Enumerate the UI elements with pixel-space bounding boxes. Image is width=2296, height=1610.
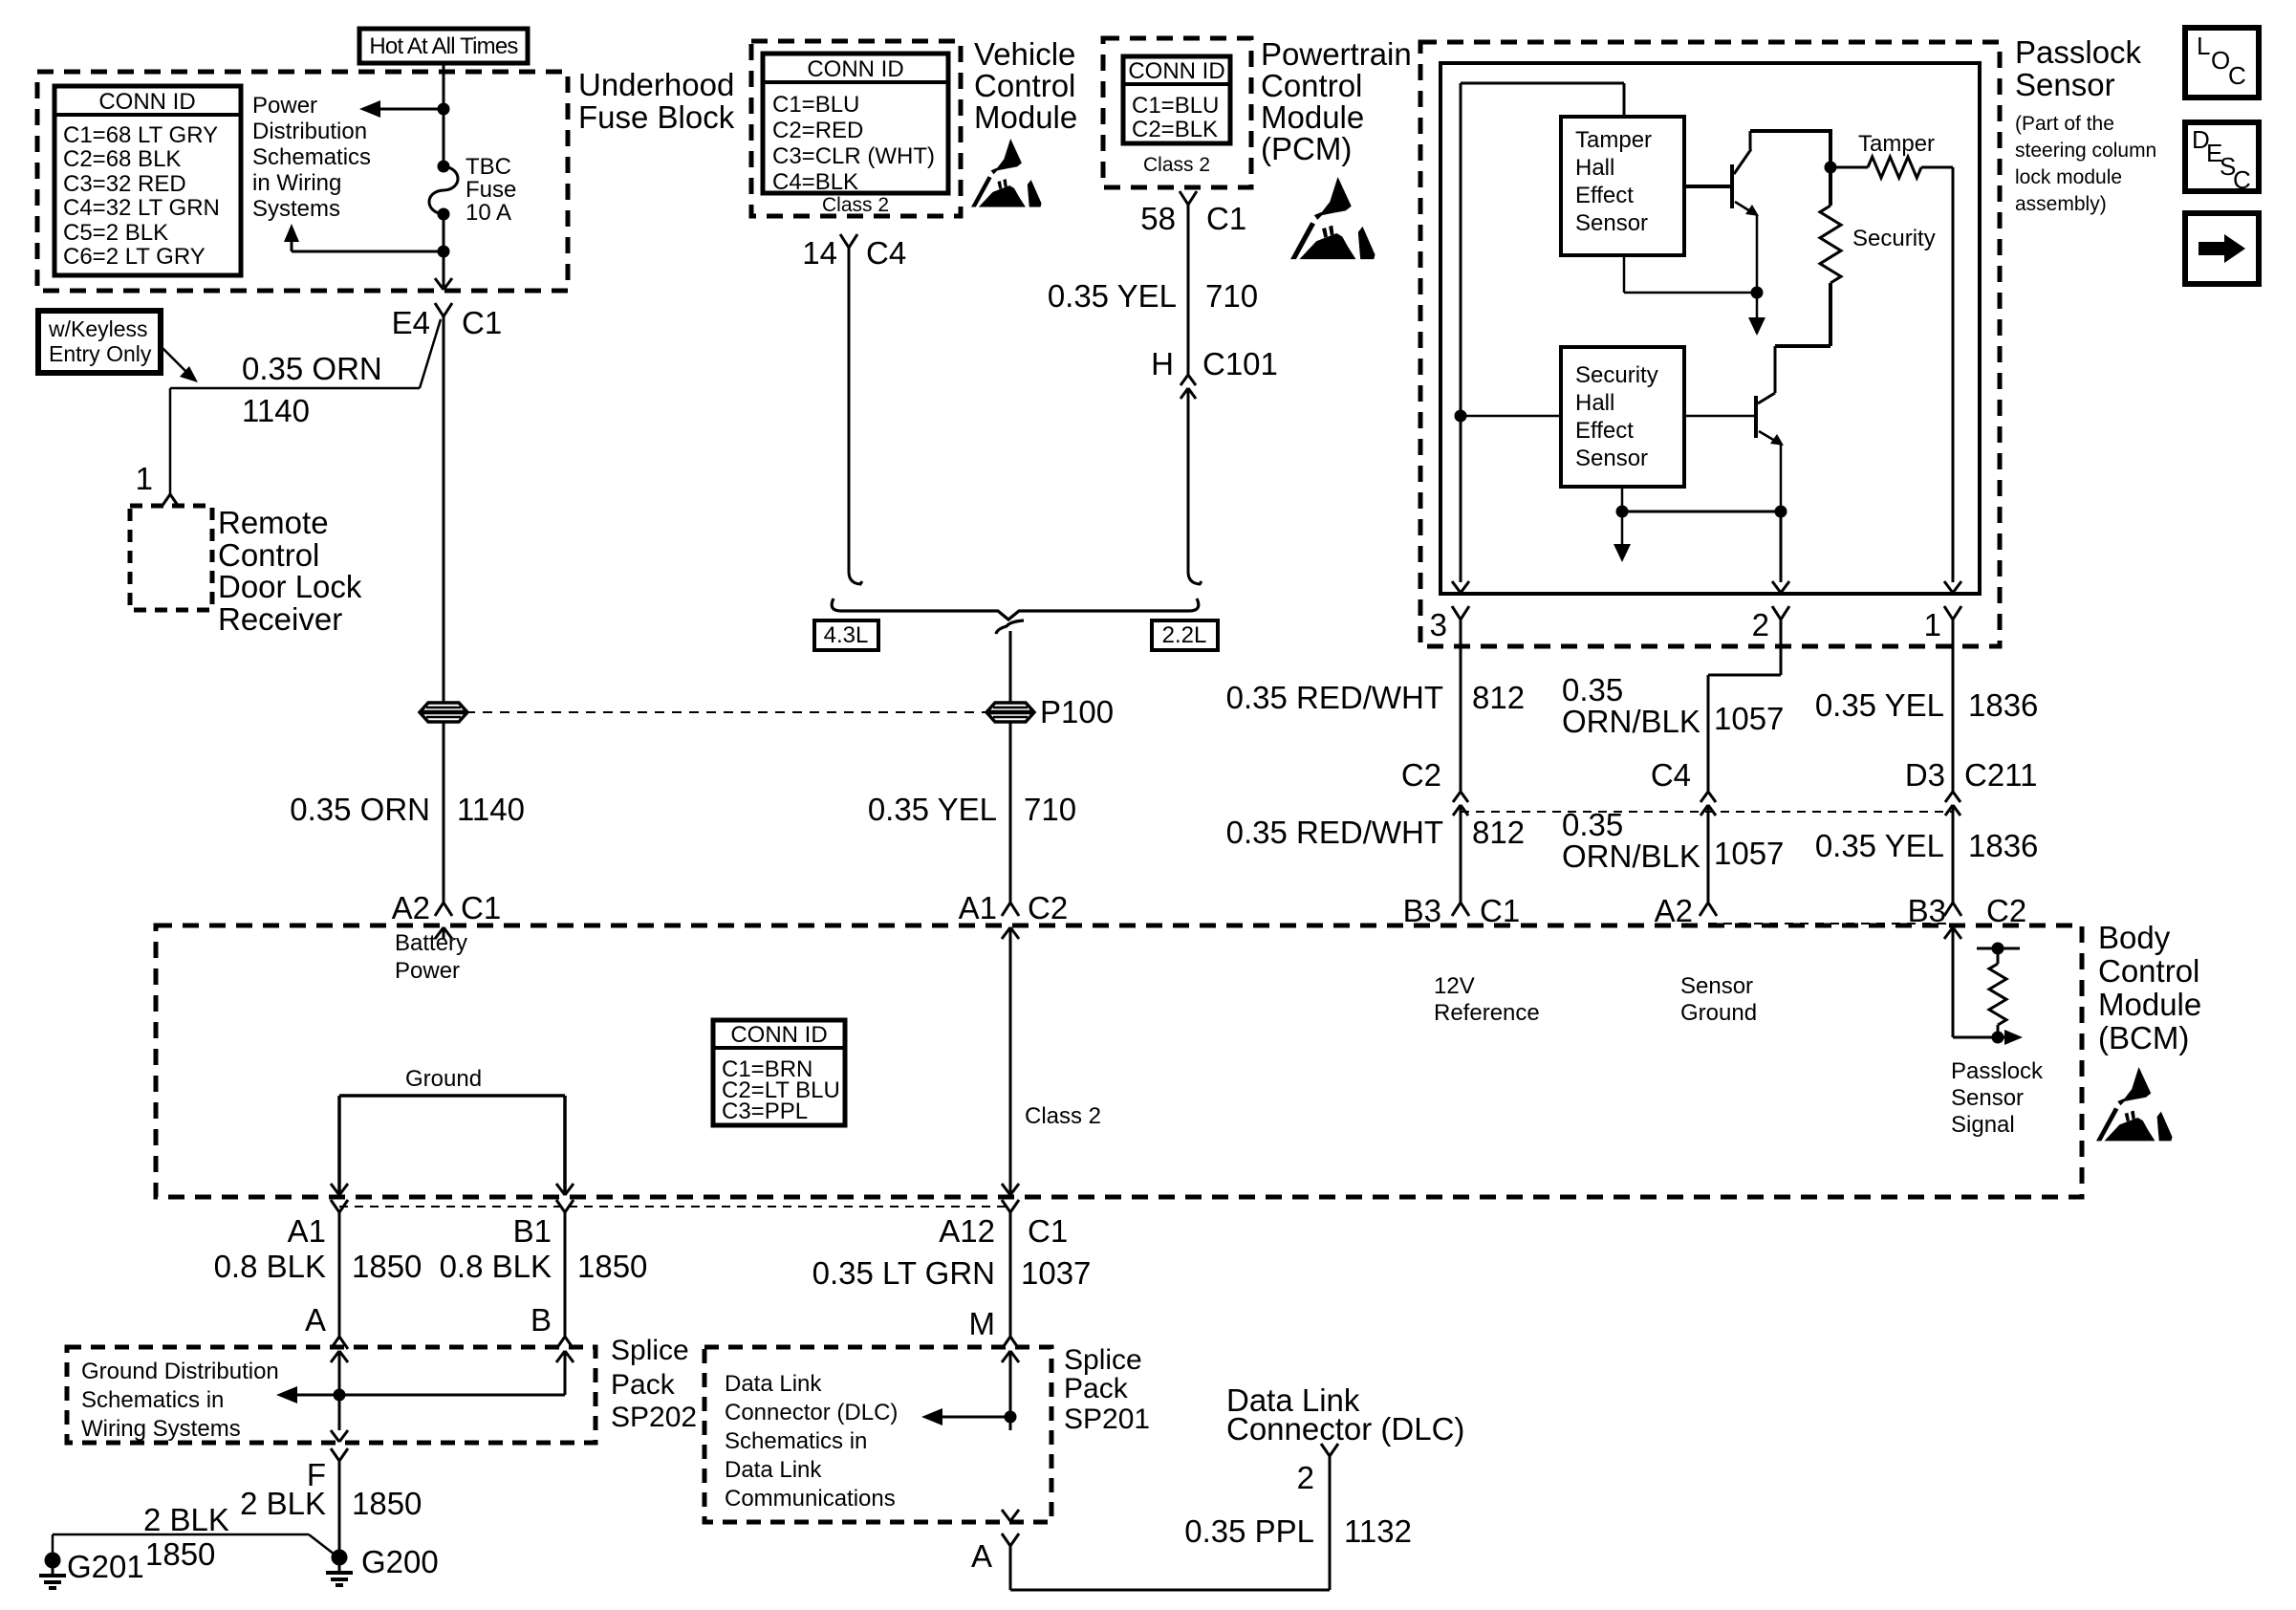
wire security resistor to Q2 collector [1829, 283, 1832, 346]
svg-text:Fuse: Fuse [466, 177, 516, 203]
svg-text:Schematics: Schematics [252, 144, 371, 170]
svg-text:Effect: Effect [1575, 183, 1634, 208]
svg-text:14: 14 [802, 235, 837, 271]
connector pin 1 (passlock) [1944, 606, 1953, 620]
svg-text:0.35: 0.35 [1562, 807, 1623, 842]
svg-text:Pack: Pack [611, 1369, 676, 1401]
svg-text:Class 2: Class 2 [822, 194, 889, 216]
svg-text:assembly): assembly) [2015, 193, 2107, 215]
svg-text:1850: 1850 [577, 1249, 647, 1284]
module Passlock Sensor (dashed box) [1420, 42, 2000, 646]
svg-text:Control: Control [218, 537, 319, 573]
svg-text:Powertrain: Powertrain [1261, 36, 1412, 72]
connector B3 C1 12V reference (BCM) [1452, 903, 1461, 916]
svg-text:G200: G200 [361, 1544, 439, 1579]
svg-text:Distribution: Distribution [252, 119, 367, 144]
module Underhood Fuse Block (dashed box) [37, 72, 568, 291]
svg-text:Connector (DLC): Connector (DLC) [725, 1400, 898, 1425]
connector A (SP201 output) [1002, 1534, 1010, 1546]
svg-text:Data Link: Data Link [725, 1457, 822, 1483]
block Security Hall Effect Sensor [1561, 347, 1684, 487]
svg-text:C5=2 BLK: C5=2 BLK [63, 220, 168, 246]
svg-text:G201: G201 [67, 1549, 144, 1584]
transistor Q2 security output (NPN) [1684, 415, 1756, 418]
svg-text:C4: C4 [1651, 757, 1691, 793]
svg-text:Power: Power [252, 93, 317, 119]
wire arrow to power distribution schematics [379, 108, 444, 111]
svg-text:Module: Module [974, 99, 1077, 135]
svg-text:A1: A1 [959, 890, 997, 925]
wire splice SP202 internal [339, 1394, 565, 1397]
wire 1057 pin2 jog to C4 [1780, 646, 1783, 675]
svg-text:C6=2 LT GRY: C6=2 LT GRY [63, 244, 206, 270]
svg-text:B3: B3 [1403, 893, 1441, 928]
svg-text:Passlock: Passlock [1951, 1058, 2044, 1084]
svg-text:C2: C2 [1401, 757, 1441, 793]
svg-text:2 BLK: 2 BLK [240, 1486, 326, 1521]
svg-text:C2=RED: C2=RED [772, 118, 863, 143]
svg-text:C3=CLR (WHT): C3=CLR (WHT) [772, 143, 935, 169]
splice pack SP202 (dashed box) [67, 1347, 596, 1443]
svg-text:A2: A2 [392, 890, 430, 925]
svg-text:2: 2 [1752, 607, 1769, 642]
svg-text:0.35 YEL: 0.35 YEL [868, 792, 997, 827]
svg-text:1836: 1836 [1968, 687, 2038, 723]
svg-text:C1=BLU: C1=BLU [772, 92, 859, 118]
block Tamper Hall Effect Sensor [1623, 83, 1626, 117]
wire tamper sensor bottom to emitter junction [1623, 255, 1626, 293]
svg-text:(PCM): (PCM) [1261, 131, 1352, 166]
svg-text:C2=68 BLK: C2=68 BLK [63, 146, 181, 172]
transistor Q1 tamper output (NPN) [1684, 185, 1732, 188]
wire branch to power distribution (up arrow) [292, 250, 444, 253]
arrow from keyless note to wire [161, 346, 187, 373]
svg-text:Communications: Communications [725, 1486, 896, 1512]
svg-text:SP202: SP202 [611, 1402, 697, 1433]
svg-text:Module: Module [2098, 987, 2201, 1022]
junction dot fuse output branch [438, 246, 450, 258]
svg-text:0.35 LT GRN: 0.35 LT GRN [812, 1255, 995, 1291]
svg-text:P100: P100 [1040, 694, 1114, 729]
svg-text:0.35 YEL: 0.35 YEL [1815, 828, 1944, 863]
svg-text:Wiring Systems: Wiring Systems [81, 1416, 241, 1442]
svg-text:A: A [305, 1302, 326, 1338]
svg-text:ORN/BLK: ORN/BLK [1562, 838, 1700, 874]
svg-text:CONN ID: CONN ID [98, 89, 195, 115]
junction dot SP202 [334, 1389, 346, 1402]
wire left supply rail (pin 3 internal) [1460, 83, 1462, 582]
wire hook VCM side (4.3L option) [849, 572, 862, 584]
svg-text:Signal: Signal [1951, 1112, 2015, 1138]
junction dot passlock signal node [1992, 1032, 2004, 1044]
wire Class 2 inside BCM [1009, 927, 1012, 1193]
svg-text:Sensor: Sensor [1575, 210, 1648, 236]
svg-text:Pack: Pack [1064, 1373, 1129, 1404]
connector ID table C1-C6 (fuse block) [54, 86, 241, 275]
arrow ground wire A1 exits BCM [331, 1184, 339, 1195]
wire fuse output [443, 214, 445, 287]
svg-text:B3: B3 [1908, 893, 1946, 928]
svg-text:1: 1 [136, 461, 153, 496]
svg-text:Door Lock: Door Lock [218, 569, 362, 604]
junction dot SP201 [1005, 1411, 1017, 1424]
connector C4 (in-line C211 row) [1700, 792, 1708, 802]
wire 1850 to G201 [53, 1534, 309, 1536]
module Body Control Module BCM (dashed box) [156, 925, 2082, 1197]
junction dot Q2 emitter [1775, 506, 1787, 518]
svg-text:B1: B1 [513, 1213, 552, 1249]
module Vehicle Control Module (dashed box) [751, 41, 961, 216]
svg-text:58: 58 [1140, 201, 1176, 236]
resistor BCM passlock pull-up [1977, 947, 2020, 950]
junction dot tamper node [1825, 162, 1837, 174]
svg-text:C3=32 RED: C3=32 RED [63, 171, 186, 197]
svg-text:C1: C1 [1480, 893, 1520, 928]
svg-text:M: M [969, 1306, 996, 1341]
svg-text:0.35 PPL: 0.35 PPL [1184, 1513, 1314, 1549]
svg-text:1850: 1850 [145, 1536, 215, 1572]
label 2.2L (boxed) [1152, 620, 1218, 650]
label 4.3L (boxed) [814, 620, 878, 650]
svg-text:w/Keyless: w/Keyless [48, 316, 148, 341]
svg-text:Schematics in: Schematics in [725, 1428, 867, 1454]
svg-text:Hall: Hall [1575, 155, 1614, 181]
svg-text:C1: C1 [461, 890, 501, 925]
fuse TBC Fuse 10 A [438, 161, 450, 173]
svg-text:Tamper: Tamper [1858, 131, 1935, 157]
dashed tie line A1-B1-A12 connector row [339, 1206, 1010, 1207]
wire hook PCM side (2.2L option) [1188, 572, 1202, 584]
connector B1 (BCM ground) [556, 1200, 565, 1212]
connector pin 3 (passlock) [1452, 606, 1461, 620]
wire exits fuse block (open arrow down) [435, 278, 444, 290]
svg-text:Underhood: Underhood [578, 67, 734, 102]
svg-text:1850: 1850 [352, 1249, 422, 1284]
svg-text:Connector (DLC): Connector (DLC) [1226, 1411, 1464, 1447]
svg-text:2 BLK: 2 BLK [143, 1502, 229, 1537]
svg-text:Control: Control [974, 68, 1075, 103]
connector pin 14 C4 (VCM) [840, 234, 849, 248]
svg-text:Control: Control [1261, 68, 1362, 103]
svg-text:Hot At All Times: Hot At All Times [369, 33, 518, 59]
svg-text:2: 2 [1297, 1460, 1314, 1495]
wire 1140 P100 to BCM A2 [443, 723, 445, 903]
svg-text:1: 1 [1924, 607, 1941, 642]
svg-text:Remote: Remote [218, 505, 329, 540]
svg-text:Splice: Splice [1064, 1344, 1142, 1376]
wire 812 pin3 to C2 [1460, 646, 1462, 792]
ESD symbol (PCM) [1290, 177, 1375, 259]
svg-text:in Wiring: in Wiring [252, 170, 341, 196]
wire 710 P100 to BCM A1 [1009, 723, 1012, 903]
svg-text:1037: 1037 [1021, 1255, 1091, 1291]
wire battery feed into fuse (vertical) [443, 63, 445, 166]
svg-text:lock module: lock module [2015, 166, 2122, 188]
svg-text:H: H [1151, 346, 1174, 381]
svg-text:0.35: 0.35 [1562, 672, 1623, 707]
ESD symbol (VCM) [971, 139, 1042, 207]
svg-text:4.3L: 4.3L [824, 622, 869, 648]
wire left rail to security sensor [1455, 410, 1467, 423]
svg-text:1140: 1140 [457, 792, 525, 827]
connector A12 C1 (BCM class2 output) [1002, 1200, 1010, 1212]
wire 1836 pin1 to D3 [1952, 646, 1955, 792]
dashed tie line C211 connector row [1461, 811, 1953, 813]
svg-text:0.35 YEL: 0.35 YEL [1815, 687, 1944, 723]
svg-text:0.35 RED/WHT: 0.35 RED/WHT [1226, 680, 1443, 715]
svg-text:CONN ID: CONN ID [730, 1022, 827, 1048]
wire 1132 SP201-A to DLC pin 2 [1010, 1589, 1330, 1592]
wire pin2 internal down [1780, 511, 1783, 582]
wire passlock sensor signal inside BCM [1952, 927, 1955, 1037]
connector F (SP202 output) [331, 1448, 339, 1461]
svg-text:C3=PPL: C3=PPL [722, 1099, 808, 1124]
connector A2 sensor ground (BCM) [1700, 903, 1708, 916]
svg-text:D3: D3 [1905, 757, 1945, 793]
wire 1057 C4 to BCM A2 [1707, 805, 1710, 903]
connector B3 C2 passlock sensor signal (BCM) [1944, 903, 1953, 916]
svg-text:Class 2: Class 2 [1143, 154, 1210, 176]
wire 710 from PCM pin 58 [1187, 222, 1190, 375]
wire security sensor bottom to emitter row [1621, 487, 1624, 511]
connector ID table VCM [763, 54, 948, 193]
svg-text:L: L [2197, 32, 2210, 60]
svg-text:Hall: Hall [1575, 390, 1614, 416]
wire pin1 right rail [1952, 167, 1955, 582]
svg-text:Tamper: Tamper [1575, 127, 1652, 153]
arrow pin1 wire exits housing [1944, 581, 1953, 593]
ground G201 [45, 1553, 61, 1569]
svg-text:Passlock: Passlock [2015, 34, 2142, 70]
arrow internal common (down) below security sensor [1621, 511, 1624, 547]
svg-text:C2: C2 [1028, 890, 1068, 925]
svg-text:Ground Distribution: Ground Distribution [81, 1359, 279, 1384]
junction dot at fuse feed [438, 103, 450, 116]
svg-text:B: B [531, 1302, 552, 1338]
svg-text:Receiver: Receiver [218, 601, 342, 637]
legend next-page arrow box [2185, 213, 2259, 284]
arrow ground wire B1 exits BCM [556, 1184, 565, 1195]
svg-text:A: A [971, 1538, 992, 1574]
ESD symbol (BCM) [2096, 1067, 2173, 1141]
arrow class2 wire exits BCM at A12 [1002, 1184, 1010, 1195]
svg-text:C: C [2233, 165, 2251, 194]
svg-text:1140: 1140 [242, 393, 310, 428]
svg-text:1850: 1850 [352, 1486, 422, 1521]
svg-text:A1: A1 [288, 1213, 326, 1249]
svg-text:Systems: Systems [252, 196, 340, 222]
svg-text:Body: Body [2098, 920, 2171, 955]
svg-text:steering column: steering column [2015, 140, 2156, 162]
svg-text:Sensor: Sensor [1575, 446, 1648, 471]
svg-text:(Part of the: (Part of the [2015, 113, 2114, 135]
svg-text:1132: 1132 [1344, 1513, 1412, 1549]
svg-text:0.35 ORN: 0.35 ORN [290, 792, 430, 827]
svg-text:Splice: Splice [611, 1335, 689, 1366]
junction dot Q1 emitter [1751, 287, 1764, 299]
module Powertrain Control Module PCM (dashed box) [1103, 38, 1251, 187]
resistor Security [1829, 167, 1832, 206]
svg-text:Battery: Battery [395, 930, 467, 956]
wire Q1 collector to tamper resistor node [1750, 129, 1832, 133]
svg-text:Control: Control [2098, 953, 2199, 989]
connector pin 2 (DLC) [1321, 1444, 1330, 1456]
dashed tie line A2-B3 connector row [1708, 923, 1953, 925]
svg-text:812: 812 [1472, 815, 1525, 850]
arrow SP202 to ground distribution [295, 1394, 339, 1397]
svg-text:C211: C211 [1964, 757, 2037, 793]
connector D3 C211 (in-line) [1945, 792, 1953, 802]
arrow SP202 wire exits down [331, 1430, 339, 1442]
svg-text:CONN ID: CONN ID [1128, 58, 1224, 84]
svg-text:Sensor: Sensor [1951, 1085, 2024, 1111]
grommet P100 (right, wire 710) [986, 703, 1034, 722]
svg-text:0.35 RED/WHT: 0.35 RED/WHT [1226, 815, 1443, 850]
arrow pin2 wire exits housing [1772, 581, 1781, 593]
connector H C101 (in-line) [1180, 375, 1188, 385]
svg-text:710: 710 [1205, 278, 1258, 314]
svg-text:1057: 1057 [1714, 836, 1784, 871]
passlock sensor inner housing (solid box) [1440, 63, 1980, 594]
wire ground loop inside BCM [339, 1094, 565, 1098]
svg-text:1836: 1836 [1968, 828, 2038, 863]
svg-text:Power: Power [395, 958, 460, 984]
wire 812 C2 to BCM B3 [1460, 805, 1462, 903]
svg-text:Fuse Block: Fuse Block [578, 99, 735, 135]
svg-text:C1: C1 [462, 305, 502, 340]
connector pin 58 C1 (PCM) [1180, 191, 1188, 205]
svg-text:C2=BLK: C2=BLK [1132, 117, 1218, 142]
svg-text:C4: C4 [866, 235, 906, 271]
connector C2 (in-line C211 row) [1453, 792, 1461, 802]
svg-text:Schematics in: Schematics in [81, 1387, 224, 1413]
svg-text:C1=BLU: C1=BLU [1132, 93, 1219, 119]
svg-text:Effect: Effect [1575, 418, 1634, 444]
svg-text:0.35 ORN: 0.35 ORN [242, 351, 382, 386]
svg-text:812: 812 [1472, 680, 1525, 715]
svg-text:C: C [2228, 61, 2246, 90]
svg-text:C4=32 LT GRN: C4=32 LT GRN [63, 195, 220, 221]
svg-text:Reference: Reference [1434, 1000, 1540, 1026]
connector A1 (BCM ground) [331, 1200, 339, 1212]
legend DESC box [2185, 122, 2259, 191]
arrow pin3 wire exits housing [1452, 581, 1461, 593]
connector E4 C1 (fuse block output) [435, 303, 444, 316]
connector pin 2 (passlock) [1772, 606, 1781, 620]
connector ID table PCM [1123, 56, 1230, 143]
junction dot security sensor ground [1616, 506, 1629, 518]
svg-text:0.8 BLK: 0.8 BLK [214, 1249, 326, 1284]
svg-text:0.8 BLK: 0.8 BLK [440, 1249, 552, 1284]
svg-text:1057: 1057 [1714, 701, 1784, 736]
wire Q2 emitter down [1780, 445, 1783, 511]
arrow SP201 wire exits down [1002, 1510, 1010, 1521]
wire Class 2 serial data from VCM [848, 264, 851, 572]
svg-text:2.2L: 2.2L [1162, 622, 1207, 648]
svg-text:Ground: Ground [405, 1066, 482, 1092]
wire 710 from brace to P100 [1009, 631, 1012, 702]
connector A2 C1 battery power input (BCM) [435, 903, 444, 916]
svg-text:Security: Security [1852, 226, 1936, 251]
grommet P100 (left, wire 1140) [420, 703, 467, 722]
svg-text:Entry Only: Entry Only [49, 341, 152, 366]
svg-text:Vehicle: Vehicle [974, 36, 1075, 72]
wire 710 from C101 to engine option brace [1187, 388, 1190, 572]
svg-text:CONN ID: CONN ID [807, 56, 903, 82]
svg-text:10 A: 10 A [466, 200, 511, 226]
svg-text:C4=BLK: C4=BLK [772, 169, 858, 195]
svg-text:Ground: Ground [1680, 1000, 1757, 1026]
svg-text:(BCM): (BCM) [2098, 1020, 2189, 1055]
svg-text:A2: A2 [1655, 893, 1693, 928]
module Remote Control Door Lock Receiver (dashed box) [130, 506, 212, 610]
wire 1140 branch to keyless receiver [420, 319, 441, 388]
dashed tie line between P100 grommets [466, 711, 987, 713]
wire Q1 emitter down [1756, 215, 1759, 293]
svg-text:Security: Security [1575, 362, 1658, 388]
svg-text:A12: A12 [939, 1213, 995, 1249]
label Hot At All Times (boxed) [359, 29, 528, 63]
svg-text:Class 2: Class 2 [1025, 1103, 1101, 1129]
svg-text:C101: C101 [1202, 346, 1278, 381]
legend LOC box [2185, 28, 2259, 98]
svg-text:Data Link: Data Link [725, 1371, 822, 1397]
label w/Keyless Entry Only (boxed) [38, 311, 161, 373]
svg-text:Sensor: Sensor [1680, 973, 1753, 999]
splice pack SP201 (dashed box) [704, 1347, 1051, 1522]
svg-text:0.35 YEL: 0.35 YEL [1048, 278, 1177, 314]
arrow internal common (down) below Q1 emitter [1756, 293, 1759, 320]
svg-text:C1: C1 [1028, 1213, 1068, 1249]
wire 1140 main vertical from E4 to P100 [443, 337, 445, 702]
svg-text:TBC: TBC [466, 154, 511, 180]
svg-text:710: 710 [1024, 792, 1076, 827]
arrow SP201 to DLC schematics [941, 1416, 1010, 1419]
arrow passlock signal into BCM logic [1998, 1036, 2007, 1039]
wire 1836 D3 to BCM B3/C2 [1952, 805, 1955, 903]
svg-text:ORN/BLK: ORN/BLK [1562, 704, 1700, 739]
connector ID table BCM [713, 1020, 845, 1125]
svg-text:C1: C1 [1206, 201, 1246, 236]
resistor Tamper [1830, 166, 1868, 169]
connector A1 C2 class2 input (BCM) [1002, 903, 1010, 916]
svg-text:3: 3 [1430, 607, 1447, 642]
option combiner brace [832, 598, 1199, 620]
svg-text:E4: E4 [392, 305, 430, 340]
svg-text:C1=68 LT GRY: C1=68 LT GRY [63, 122, 218, 148]
svg-text:Module: Module [1261, 99, 1364, 135]
svg-text:12V: 12V [1434, 973, 1475, 999]
svg-text:C2: C2 [1986, 893, 2026, 928]
ground G200 [332, 1550, 348, 1566]
svg-text:Sensor: Sensor [2015, 67, 2115, 102]
svg-text:SP201: SP201 [1064, 1403, 1150, 1435]
